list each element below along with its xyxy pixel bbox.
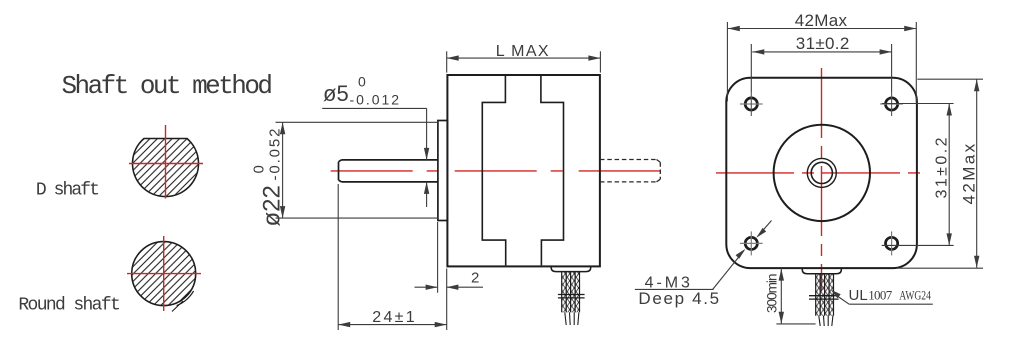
motor body outline	[447, 75, 600, 266]
motor body centerline (red)	[331, 170, 666, 172]
wire bundle (front view)	[816, 274, 834, 316]
svg-text:Shaft out method: Shaft out method	[62, 71, 274, 101]
Round shaft stray hatch tick	[172, 301, 183, 312]
svg-text:AWG24: AWG24	[899, 288, 931, 303]
pilot circle	[774, 125, 870, 221]
dimension 24±1	[338, 184, 447, 330]
dimension 300min (vertical)	[776, 268, 815, 324]
rotor inner contour left	[482, 76, 505, 265]
mounting hole top-right	[886, 98, 898, 110]
leader UL1007 AWG24 to wires	[838, 297, 933, 305]
dimension 31±0.2 right (vertical)	[882, 104, 954, 246]
svg-text:UL: UL	[849, 287, 868, 304]
svg-text:42Max: 42Max	[795, 11, 848, 30]
front flange boss	[438, 121, 448, 221]
dimension 2 (flange thickness)	[415, 222, 484, 293]
leader 4-M3 to bottom-left hole	[713, 221, 772, 290]
mounting hole bottom-left	[745, 237, 757, 249]
Round shaft centerline horizontal	[127, 273, 201, 275]
shaft circle	[811, 162, 832, 183]
front view centerline vertical (red)	[821, 68, 823, 291]
dimension 42Max top	[727, 22, 916, 103]
dimension L MAX	[447, 51, 601, 72]
dimension 31±0.2 top	[751, 44, 891, 92]
tape band on bundle (front view)	[809, 296, 839, 299]
svg-text:L MAX: L MAX	[496, 43, 549, 60]
label underline 4-M3	[635, 288, 714, 290]
svg-text:-0.052: -0.052	[267, 129, 284, 181]
Round shaft centerline vertical	[163, 236, 165, 311]
svg-text:31±0.2: 31±0.2	[934, 137, 951, 198]
svg-text:-0.012: -0.012	[350, 91, 400, 107]
svg-text:31±0.2: 31±0.2	[796, 34, 850, 53]
svg-text:Deep 4.5: Deep 4.5	[638, 289, 719, 308]
mounting hole top-left	[745, 98, 757, 110]
front face outline (rounded square)	[726, 78, 917, 268]
dimension 42Max right (vertical)	[897, 79, 983, 268]
mounting hole bottom-right	[886, 237, 898, 249]
svg-text:300min: 300min	[765, 274, 780, 314]
wire grommet (side view)	[551, 267, 591, 272]
Round shaft stray arc artifact	[177, 291, 194, 306]
svg-text:24±1: 24±1	[372, 309, 414, 326]
svg-text:0: 0	[358, 74, 366, 90]
D shaft section (hatched circle with flat)	[133, 139, 199, 197]
svg-text:0: 0	[251, 165, 268, 173]
svg-text:1007: 1007	[868, 288, 893, 303]
wire tails (side view)	[565, 312, 579, 325]
dimension o22 0/-0.052	[276, 122, 438, 218]
D shaft centerline vertical	[165, 125, 167, 199]
svg-text:2: 2	[471, 269, 479, 286]
tape band on bundle (side view)	[558, 295, 585, 298]
svg-text:D shaft: D shaft	[36, 181, 100, 201]
Round shaft section (hatched circle)	[132, 242, 196, 306]
wire tails (front view)	[819, 316, 833, 326]
wire grommet (front view)	[802, 269, 841, 274]
svg-text:ø5: ø5	[323, 81, 349, 106]
rear shaft hidden (dashed)	[600, 160, 660, 182]
wire bundle (side view)	[562, 272, 580, 313]
svg-text:Round shaft: Round shaft	[18, 296, 120, 316]
svg-text:ø22: ø22	[259, 185, 286, 226]
D shaft centerline horizontal	[129, 163, 203, 165]
front view centerline horizontal (red)	[716, 172, 927, 174]
svg-text:42Max: 42Max	[960, 143, 979, 204]
rotor inner contour right	[541, 76, 564, 265]
output shaft (left)	[339, 160, 438, 182]
shaft boss circle	[807, 158, 836, 187]
